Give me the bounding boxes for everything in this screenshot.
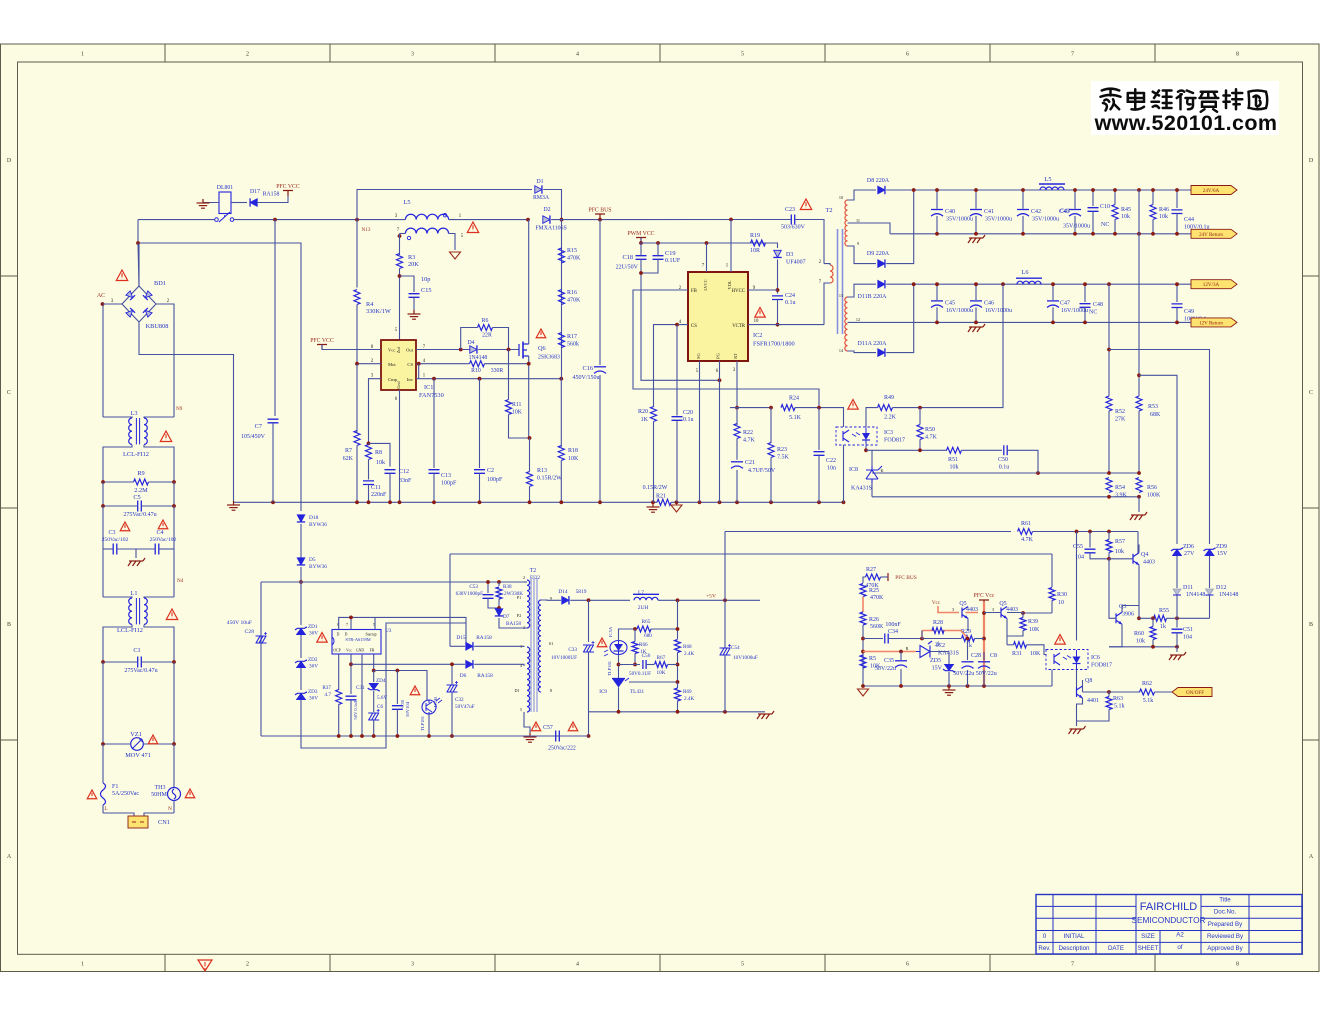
wire pin9 to D9 [848, 246, 877, 264]
warning symbol near Q6 [536, 329, 546, 338]
svg-text:33nF: 33nF [399, 478, 412, 484]
wire source chain [529, 438, 531, 472]
junction [974, 321, 978, 325]
diode D11B [878, 280, 885, 288]
optocoupler IC6 FOD817 box [1046, 650, 1088, 670]
svg-text:Q4: Q4 [1141, 552, 1148, 558]
wire L1 out b [144, 625, 174, 662]
wire divider bottom rail [872, 496, 1139, 498]
svg-text:Description: Description [1059, 945, 1091, 952]
svg-text:LCL-FI12: LCL-FI12 [117, 627, 143, 634]
wire Q6 drain to bus [528, 220, 530, 344]
wire R57 down [1108, 553, 1110, 559]
wire R31 left [1007, 644, 1014, 646]
ground at relay DL801 [197, 199, 210, 208]
wire drive down to R30 [1051, 554, 1053, 587]
svg-text:104: 104 [1075, 555, 1084, 561]
wire control ground rail [863, 685, 1052, 687]
wire to C45 [936, 284, 938, 300]
svg-text:330K/1W: 330K/1W [366, 308, 391, 315]
wire C44 down [1176, 214, 1178, 234]
wire L1 in b [144, 597, 174, 598]
svg-text:C: C [1309, 390, 1313, 396]
svg-text:Startup: Startup [366, 633, 377, 637]
wire C46 down [975, 307, 977, 322]
svg-text:4: 4 [576, 962, 579, 968]
shunt regulator IC9 TL431 [612, 678, 625, 680]
capacitor C31 [346, 696, 357, 700]
resistor R52 [1106, 396, 1112, 411]
svg-text:R56: R56 [1147, 485, 1157, 491]
ground secondary [757, 711, 774, 719]
svg-text:4.7K: 4.7K [925, 435, 938, 441]
resistor R5 [860, 655, 866, 668]
wire LVCC pin [706, 243, 708, 272]
svg-text:3: 3 [992, 607, 994, 612]
resistor R68 [675, 640, 681, 653]
junction ground bus [388, 500, 392, 504]
junction [1151, 232, 1155, 236]
wire drive to IC6 LED [1076, 532, 1078, 641]
wire to C40 [936, 190, 938, 209]
svg-text:NC: NC [1101, 222, 1109, 228]
svg-text:12: 12 [856, 317, 860, 322]
svg-text:D1: D1 [514, 688, 519, 693]
junction KA431 row [861, 650, 865, 654]
junction ground bus right [698, 500, 702, 504]
wire TL431 anode down [618, 688, 620, 712]
svg-text:680: 680 [644, 633, 652, 639]
svg-text:470K: 470K [567, 298, 581, 304]
svg-text:2SK3683: 2SK3683 [538, 355, 560, 361]
svg-text:1k: 1k [1160, 624, 1166, 630]
wire C45 down [936, 307, 938, 322]
wire C3 to C4 [117, 548, 155, 550]
wire sense crossing [1138, 190, 1140, 234]
junction [172, 742, 176, 746]
svg-text:IC1: IC1 [424, 384, 433, 391]
svg-text:D15: D15 [456, 635, 466, 641]
resistor R25 [860, 584, 866, 597]
capacitor C12 [385, 470, 396, 474]
wire R15 chain [561, 220, 563, 379]
svg-text:R51: R51 [948, 457, 958, 463]
resistor R6 [478, 325, 493, 331]
wire to R55 [1139, 617, 1153, 619]
junction ZD6 branch [1137, 373, 1141, 377]
wire R45 down [1114, 220, 1116, 234]
wire vcc rail [641, 242, 778, 244]
wire C55 to R57 bottom [1090, 553, 1109, 559]
svg-text:RM3A: RM3A [533, 195, 550, 201]
svg-text:R57: R57 [1115, 539, 1125, 545]
svg-text:FOD817: FOD817 [884, 438, 905, 444]
wire CS pin4 to R10 [416, 363, 470, 365]
shunt regulator IC8 KA431S [866, 466, 882, 483]
svg-text:C21: C21 [745, 460, 755, 466]
wire to C28b [967, 639, 969, 661]
capacitor C10 [1088, 208, 1099, 212]
svg-text:8: 8 [550, 688, 552, 693]
junction PG return [718, 378, 722, 382]
junction C35 gnd [899, 684, 903, 688]
wire C51 down [1176, 633, 1178, 647]
svg-text:C12: C12 [399, 469, 409, 475]
wire q8 c [1082, 686, 1084, 692]
svg-text:10k: 10k [376, 460, 385, 466]
resistor R29 [962, 636, 975, 642]
svg-text:OCP: OCP [333, 649, 340, 653]
svg-text:R67: R67 [657, 655, 666, 661]
svg-text:R62: R62 [1142, 681, 1152, 687]
svg-text:BYW36: BYW36 [309, 564, 327, 570]
wire +5V to control rail [724, 532, 726, 601]
junction R49 R50 [918, 406, 922, 410]
svg-text:8: 8 [1236, 962, 1239, 968]
zener diode ZD3 [297, 693, 306, 699]
wire to C10 [1092, 190, 1094, 206]
junction R24 C22 [817, 406, 821, 410]
resistor R17 [559, 333, 565, 348]
wire R18 to bus [560, 461, 562, 504]
wire C47 down [1052, 307, 1054, 322]
svg-text:LCL-FI12: LCL-FI12 [123, 451, 149, 458]
svg-text:2.2K: 2.2K [884, 415, 897, 421]
wire C10 down [1092, 211, 1094, 234]
capacitor C11 [363, 481, 374, 485]
wire Cmp pin3 down [369, 379, 382, 444]
svg-text:TH3: TH3 [155, 785, 166, 791]
junction ref R69 [676, 680, 680, 684]
wire Inv chain to R18 [560, 379, 562, 447]
wire relay coil to D17 [231, 202, 247, 204]
svg-text:10K: 10K [1030, 651, 1041, 657]
capacitor C20 [672, 417, 683, 421]
junction R60 top [1151, 616, 1155, 620]
svg-text:C23: C23 [785, 207, 795, 213]
svg-text:Q8: Q8 [1085, 678, 1092, 684]
warning symbol near T2 [800, 199, 811, 210]
wire IC6 to Q8 [1076, 670, 1078, 688]
wire PFC Vcc to Q5b base [984, 612, 1001, 614]
wire R53 down [1138, 411, 1140, 473]
bridge diode of BD1 [143, 308, 153, 318]
optocoupler IC6 LED [1073, 657, 1081, 664]
wire divider rail [872, 472, 1139, 474]
svg-text:2UH: 2UH [638, 605, 649, 611]
wire FB to opto [374, 671, 427, 701]
wire RT node rail [730, 407, 771, 409]
resistor R28 [932, 628, 944, 634]
junction gate R11 [507, 348, 511, 352]
svg-text:D11B 220A: D11B 220A [858, 294, 888, 300]
svg-text:R26: R26 [869, 617, 879, 623]
junction 24V sense [1137, 188, 1141, 192]
svg-text:P2: P2 [517, 613, 521, 618]
svg-text:4401: 4401 [1087, 698, 1099, 704]
svg-text:L7: L7 [638, 590, 644, 596]
capacitor C34 [885, 634, 888, 644]
resistor R55 [1154, 615, 1167, 621]
op-amp IC1 FAN7530 body [381, 340, 416, 390]
svg-text:104: 104 [1183, 635, 1192, 641]
svg-text:UF4007: UF4007 [786, 260, 806, 266]
svg-text:IC2: IC2 [936, 643, 945, 649]
svg-text:C20: C20 [683, 410, 693, 416]
resistor R61 [1018, 529, 1033, 535]
wire R9 out [149, 481, 175, 483]
svg-text:IC3: IC3 [884, 430, 893, 436]
svg-text:50V 0.1uF: 50V 0.1uF [353, 700, 358, 720]
junction Q4 R55 [1137, 616, 1141, 620]
junction Inv R17 [559, 377, 563, 381]
wire C22 to bus [818, 455, 820, 502]
warning symbol near C3 [120, 522, 130, 531]
wire up to R6 [461, 328, 478, 350]
svg-text:R19: R19 [750, 233, 760, 239]
svg-text:330R: 330R [491, 368, 504, 374]
svg-text:NC: NC [1089, 310, 1097, 316]
ground below R21 left [647, 503, 660, 512]
junction [1113, 188, 1117, 192]
svg-text:R20: R20 [638, 409, 648, 415]
svg-text:R31: R31 [1012, 651, 1022, 657]
junction PFC Vcc rail [982, 637, 986, 641]
warning symbol near L1 [166, 609, 177, 620]
svg-text:0.1u: 0.1u [999, 465, 1010, 471]
warning symbol near L3 [160, 431, 171, 442]
wire PG pin down [719, 361, 721, 502]
svg-text:50V/22u 50V/22u: 50V/22u 50V/22u [953, 671, 997, 677]
wire ground bus right [671, 501, 844, 503]
junction R69 gnd [676, 710, 680, 714]
svg-text:R7: R7 [345, 448, 352, 454]
svg-text:0.15R/2W: 0.15R/2W [643, 485, 668, 491]
ground at bus left [227, 501, 240, 510]
svg-text:20K: 20K [408, 261, 419, 268]
junction R55 C51 [1175, 616, 1179, 620]
resistor R27 [866, 574, 881, 580]
wire to R39 [1022, 613, 1024, 618]
wire C11 to bus [368, 485, 370, 504]
wire L3 out b [144, 445, 174, 482]
svg-text:C40: C40 [945, 209, 955, 215]
svg-text:5.6V: 5.6V [377, 695, 387, 701]
junction FB rail [372, 669, 376, 673]
wire 12V to R52 [1108, 284, 1110, 396]
svg-text:PFC BUS: PFC BUS [895, 575, 916, 581]
svg-text:C2: C2 [487, 468, 494, 474]
svg-text:of: of [1177, 944, 1182, 951]
varistor VZ1 [131, 738, 144, 751]
wire C54 down [724, 655, 726, 712]
optocoupler IC3 FOD817 box [836, 427, 877, 445]
junction ground bus [478, 500, 482, 504]
resistor R8 [366, 445, 372, 460]
wire to C42 [1022, 190, 1024, 209]
capacitor C7 [268, 419, 279, 423]
svg-text:R61: R61 [1021, 521, 1031, 527]
junction [101, 504, 105, 508]
wire to C5 [103, 505, 137, 507]
svg-text:R11: R11 [512, 402, 522, 408]
capacitor C53 [483, 595, 494, 599]
resistor R65 [637, 626, 651, 632]
junction ground bus right [735, 500, 739, 504]
zener diode ZD9 [1205, 549, 1214, 555]
svg-text:D: D [345, 633, 348, 637]
wire startup drop [465, 623, 467, 646]
svg-text:C46: C46 [984, 300, 994, 306]
svg-text:C42: C42 [1031, 209, 1041, 215]
svg-text:R60: R60 [1134, 631, 1144, 637]
svg-text:R13: R13 [537, 468, 547, 474]
svg-text:1N4148: 1N4148 [469, 355, 488, 361]
svg-text:C33: C33 [568, 647, 577, 653]
ground below C3 C4 [128, 558, 145, 566]
diode D15 [466, 643, 473, 651]
wire R67 to node [668, 664, 678, 666]
svg-text:L6: L6 [1022, 269, 1029, 276]
wire to R69 [677, 682, 679, 688]
svg-text:16V/1000u: 16V/1000u [1061, 308, 1088, 314]
resistor R26 [860, 612, 866, 625]
wire L5 pin5 to ground [449, 234, 455, 251]
svg-text:R28: R28 [933, 620, 943, 626]
wire left to F1 [102, 744, 104, 783]
svg-text:PFC Vcc: PFC Vcc [974, 593, 995, 599]
wire startup top rail [261, 581, 524, 583]
wire to triangle ground [676, 502, 678, 505]
wire to R46 [1152, 190, 1154, 205]
svg-text:2.4K: 2.4K [684, 696, 694, 702]
junction PFC BUS [598, 218, 602, 222]
svg-text:C11: C11 [371, 485, 381, 491]
svg-text:10k: 10k [1136, 639, 1145, 645]
wire C35 down [900, 669, 902, 686]
junction 12V sense [1001, 282, 1005, 286]
junction bus R4 [355, 218, 359, 222]
warning symbol near BD1 [116, 270, 127, 281]
svg-text:105/450V: 105/450V [241, 434, 266, 440]
svg-text:2: 2 [523, 575, 525, 580]
wire C8 down [983, 670, 985, 686]
power symbol PFC BUS [595, 214, 605, 219]
wire PFC bus right [551, 219, 791, 221]
resistor R30 [1049, 588, 1055, 601]
svg-text:D2: D2 [543, 207, 550, 213]
svg-text:275Vac/0.47u: 275Vac/0.47u [123, 512, 156, 518]
wire R24 to opto [795, 408, 844, 427]
wire HVCC pin [748, 289, 778, 291]
junction [1083, 321, 1087, 325]
resistor R4 [354, 290, 360, 305]
wire +5V to R68 [677, 600, 679, 639]
svg-text:100nF: 100nF [885, 622, 901, 628]
inductor L1 common-mode choke [129, 598, 148, 624]
svg-text:R24: R24 [789, 396, 799, 402]
svg-text:R22: R22 [743, 430, 753, 436]
svg-text:TL431: TL431 [630, 689, 645, 695]
wire right rail down [173, 506, 175, 549]
wire primary return [452, 735, 554, 737]
svg-text:16V/1000u: 16V/1000u [985, 308, 1012, 314]
winding T2b aux [527, 647, 530, 712]
wire C40 down [936, 216, 938, 234]
svg-text:10: 10 [839, 195, 843, 200]
svg-text:D: D [1309, 158, 1314, 164]
wire to C48 [1084, 284, 1086, 302]
wire to C34 [863, 638, 883, 640]
junction C33 [587, 598, 591, 602]
warning symbol right of C57 [568, 722, 578, 731]
junction R57 Q4 base [1107, 557, 1111, 561]
svg-text:7: 7 [1071, 52, 1074, 58]
diode D2 [543, 216, 550, 224]
svg-text:24V/6A: 24V/6A [1203, 188, 1220, 194]
svg-text:Reviewed By: Reviewed By [1207, 933, 1244, 940]
wire to R60 [1152, 618, 1154, 626]
junction Inv C2 [478, 377, 482, 381]
title block grid [1036, 895, 1302, 955]
junction ZD9 branch [1107, 348, 1111, 352]
junction [1175, 282, 1179, 286]
wire down to R7 [356, 364, 358, 433]
svg-text:470K: 470K [870, 595, 884, 601]
junction TL431 gnd [617, 710, 621, 714]
resistor R10 [470, 361, 485, 367]
svg-text:50V47uF: 50V47uF [455, 704, 475, 710]
wire D1 to bus [543, 190, 561, 220]
wire to C19 [657, 243, 659, 256]
svg-text:ZD6: ZD6 [1183, 544, 1194, 550]
capacitor C43 [1069, 209, 1081, 211]
wire LED anode to R49 [866, 408, 878, 427]
wire L5 pin3 [398, 219, 405, 221]
svg-text:1: 1 [81, 52, 84, 58]
svg-text:PG: PG [716, 352, 721, 358]
wire ZD3 loop to startup [301, 623, 466, 748]
wire D6 node to C32 [451, 664, 453, 685]
warning symbol near VZ1 [148, 735, 158, 744]
svg-text:C43: C43 [1060, 209, 1070, 215]
wire left rail [102, 482, 104, 506]
wire L to CN1 [103, 813, 134, 816]
svg-text:630V1000pF: 630V1000pF [456, 591, 483, 597]
wire C2 to bus [479, 473, 481, 503]
svg-text:503/630V: 503/630V [781, 225, 806, 231]
junction CS C20 [675, 323, 679, 327]
wire R66 down [634, 654, 636, 665]
junction ground bus [432, 500, 436, 504]
wire L5 pin1 to D2 [449, 219, 528, 221]
winding L5 top [405, 214, 448, 219]
wire BD1 to N9 rail [156, 304, 174, 417]
junction R26 C34 [861, 637, 865, 641]
wire R61 out [1033, 531, 1139, 533]
thermistor TH3 [168, 788, 181, 801]
transistor Q5b [1001, 607, 1007, 619]
wire R29 to PFC Vcc [975, 638, 985, 640]
transformer T2 core [838, 229, 843, 334]
svg-text:R4: R4 [366, 301, 374, 308]
junction C28b [966, 637, 970, 641]
capacitor C57 [556, 731, 560, 742]
junction RT R22 [735, 406, 739, 410]
junction R38 [497, 580, 501, 584]
wire to C56 [619, 664, 641, 666]
svg-text:C22: C22 [826, 458, 836, 464]
